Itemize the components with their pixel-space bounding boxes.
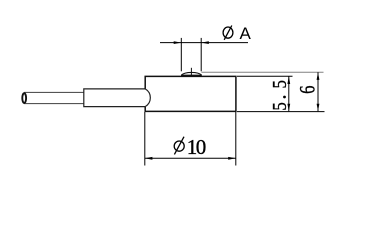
svg-text:6: 6 xyxy=(296,85,320,94)
svg-text:10: 10 xyxy=(187,135,207,159)
svg-text:A: A xyxy=(240,24,252,43)
